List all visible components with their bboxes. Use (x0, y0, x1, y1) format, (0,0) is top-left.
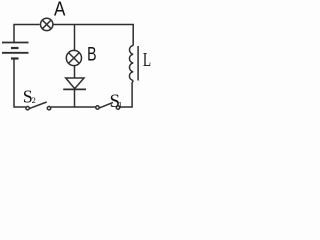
wire: lamp A to top-right corner, down to inductor (53, 25, 133, 46)
wire: lamp B to diode (74, 66, 76, 78)
diode D (63, 78, 86, 89)
battery (2, 43, 29, 59)
wire: bottom-left corner to S2 (14, 59, 26, 108)
wire: top-left corner to lamp A (14, 25, 40, 43)
svg-text:1: 1 (118, 99, 122, 109)
wire: middle branch from top wire down to lamp B (74, 25, 76, 51)
svg-text:2: 2 (32, 95, 36, 105)
wire: inductor bottom to bottom-right corner (120, 81, 133, 108)
wire: diode to bottom wire (74, 89, 76, 107)
inductor L coil (129, 46, 133, 81)
wire: S1 to diode junction to S2 (51, 106, 96, 108)
svg-text:L: L (143, 49, 151, 71)
svg-text:B: B (87, 45, 96, 66)
switch S2 (26, 102, 51, 110)
svg-text:A: A (54, 0, 66, 21)
inductor core line (137, 46, 139, 81)
lamp B (66, 50, 81, 65)
switch S1 (96, 102, 120, 109)
lamp A (41, 18, 53, 30)
